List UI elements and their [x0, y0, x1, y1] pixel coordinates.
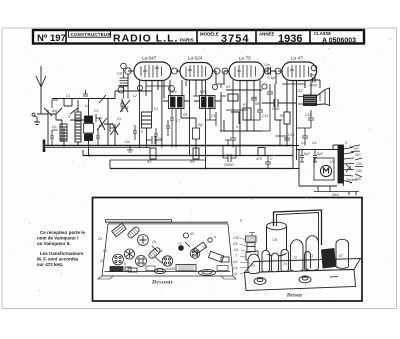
svg-text:MF1: MF1 — [170, 90, 177, 94]
svg-text:R6: R6 — [190, 160, 194, 164]
svg-text:Cp: Cp — [52, 125, 56, 129]
svg-text:Rg: Rg — [198, 123, 202, 127]
svg-text:C8: C8 — [273, 238, 277, 242]
svg-text:Ca: Ca — [233, 260, 237, 264]
svg-text:470: 470 — [256, 157, 262, 161]
svg-text:nom de Vainqueur I: nom de Vainqueur I — [37, 236, 79, 241]
svg-text:ANNÉE: ANNÉE — [259, 32, 274, 37]
svg-text:La 647: La 647 — [142, 56, 156, 61]
svg-text:RADIO L.L.: RADIO L.L. — [113, 33, 178, 45]
svg-text:Sect.: Sect. — [332, 193, 340, 197]
svg-text:8µF: 8µF — [317, 152, 324, 156]
svg-text:Ch: Ch — [98, 237, 102, 241]
svg-text:L4: L4 — [159, 249, 163, 253]
svg-text:Dessus: Dessus — [286, 294, 302, 299]
svg-text:Cd: Cd — [125, 140, 129, 144]
svg-text:Secteur: Secteur — [346, 178, 359, 182]
svg-text:a: a — [214, 235, 216, 239]
svg-text:m.450: m.450 — [166, 267, 175, 271]
svg-text:CLASSE: CLASSE — [314, 31, 331, 36]
svg-text:Nº 197: Nº 197 — [37, 33, 66, 44]
svg-text:L1: L1 — [85, 104, 89, 108]
svg-text:R1: R1 — [226, 85, 230, 89]
svg-text:L5: L5 — [139, 130, 143, 134]
svg-text:b: b — [124, 262, 126, 266]
svg-text:0: 0 — [345, 141, 347, 145]
svg-text:S2: S2 — [100, 259, 104, 263]
svg-text:40: 40 — [190, 232, 194, 236]
svg-text:C4: C4 — [124, 106, 128, 110]
svg-text:Ant: Ant — [51, 109, 58, 113]
svg-text:R2: R2 — [99, 124, 103, 128]
svg-text:MODÈLE: MODÈLE — [200, 32, 219, 37]
svg-text:C9: C9 — [252, 96, 256, 100]
svg-text:T3: T3 — [309, 254, 313, 258]
svg-text:T2: T2 — [293, 256, 297, 260]
svg-text:2000: 2000 — [271, 107, 280, 111]
svg-text:T4: T4 — [283, 262, 287, 266]
svg-text:La 47: La 47 — [291, 56, 303, 61]
svg-text:T2: T2 — [178, 242, 182, 246]
svg-text:MF2: MF2 — [200, 90, 207, 94]
svg-text:T1: T1 — [251, 264, 255, 268]
svg-text:Ca: Ca — [301, 141, 305, 145]
svg-text:240: 240 — [355, 169, 362, 173]
svg-text:C6: C6 — [203, 245, 207, 249]
svg-text:La 75: La 75 — [239, 56, 251, 61]
svg-text:Cv: Cv — [117, 117, 121, 121]
svg-text:110: 110 — [355, 153, 361, 157]
svg-text:C4: C4 — [233, 266, 237, 270]
svg-text:ou Vainqueur II.: ou Vainqueur II. — [37, 241, 71, 246]
svg-text:C7: C7 — [176, 119, 180, 123]
svg-text:C13: C13 — [262, 114, 268, 118]
svg-text:C1: C1 — [66, 94, 70, 98]
svg-text:C11: C11 — [211, 114, 217, 118]
svg-text:Cb: Cb — [234, 248, 238, 252]
svg-text:C10: C10 — [233, 236, 239, 240]
svg-text:67: 67 — [339, 254, 343, 258]
svg-text:C12: C12 — [296, 89, 302, 93]
svg-text:S1: S1 — [103, 249, 107, 253]
svg-text:CONSTRUCTEUR: CONSTRUCTEUR — [71, 32, 112, 37]
svg-text:C16: C16 — [288, 133, 294, 137]
svg-text:R5: R5 — [183, 113, 187, 117]
svg-text:R3: R3 — [147, 160, 151, 164]
svg-text:R8: R8 — [255, 102, 259, 106]
svg-text:M. F. sont accordés: M. F. sont accordés — [37, 257, 79, 262]
svg-text:1936: 1936 — [278, 33, 302, 45]
svg-text:R7: R7 — [243, 103, 247, 107]
svg-text:130: 130 — [356, 162, 362, 166]
svg-text:L2: L2 — [133, 94, 137, 98]
svg-text:C15: C15 — [305, 113, 311, 117]
svg-text:Ce récepteur porte le: Ce récepteur porte le — [40, 230, 86, 235]
svg-text:C8: C8 — [158, 137, 162, 141]
svg-text:C5: C5 — [152, 240, 156, 244]
svg-text:0,1: 0,1 — [236, 125, 241, 129]
svg-text:6000: 6000 — [310, 84, 318, 88]
svg-text:HP: HP — [354, 147, 359, 151]
svg-text:C9: C9 — [233, 242, 237, 246]
svg-text:A 0506003: A 0506003 — [322, 37, 356, 44]
svg-text:Dessous: Dessous — [151, 280, 173, 286]
svg-text:25000: 25000 — [223, 163, 234, 167]
svg-text:Cm: Cm — [265, 63, 270, 67]
svg-text:Cb: Cb — [312, 141, 316, 145]
svg-text:PARIS: PARIS — [180, 38, 194, 43]
svg-text:L3: L3 — [154, 107, 158, 111]
svg-text:R9: R9 — [280, 114, 284, 118]
svg-text:Les transformateurs: Les transformateurs — [40, 251, 84, 256]
svg-text:La 624: La 624 — [188, 56, 202, 61]
svg-text:Cw: Cw — [310, 73, 315, 77]
svg-text:V1: V1 — [330, 160, 334, 164]
svg-text:3754: 3754 — [221, 33, 249, 45]
svg-text:0,1µF: 0,1µF — [268, 76, 278, 80]
svg-text:8µF: 8µF — [304, 152, 311, 156]
svg-text:sur 472 kHz.: sur 472 kHz. — [37, 262, 63, 267]
svg-text:C2: C2 — [94, 109, 98, 113]
